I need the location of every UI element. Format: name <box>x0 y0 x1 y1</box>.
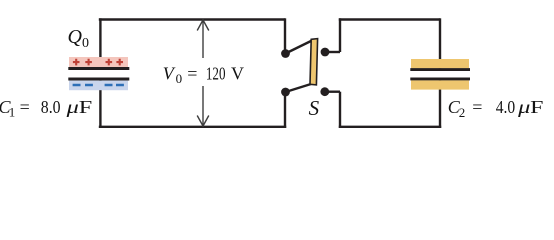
svg-text:Q0: Q0 <box>68 26 89 51</box>
V0 arrow upper segment <box>202 21 204 59</box>
wire: right circuit bottom stub <box>325 90 340 92</box>
switch terminal dot top-left <box>281 49 290 58</box>
switch terminal dot bottom-right <box>320 87 329 96</box>
wire: right circuit left side upper <box>339 18 341 52</box>
wire: left circuit right side upper <box>284 18 286 53</box>
switch terminal dot bottom-left <box>281 88 290 97</box>
capacitor C1 negative charge band <box>69 81 128 91</box>
label C1 = 8.0 uF <box>0 97 92 120</box>
svg-text:S: S <box>309 96 320 120</box>
capacitor C1 positive charge band <box>69 57 128 67</box>
wire: left circuit left side lower <box>99 79 101 128</box>
svg-text:=: = <box>20 97 30 117</box>
capacitor C2 top gold band <box>411 59 469 68</box>
wire: right circuit left side lower <box>339 92 341 128</box>
wire: right circuit right side lower <box>439 80 441 128</box>
C1 plus charges <box>73 59 123 66</box>
wire: left circuit left side upper <box>99 18 101 68</box>
switch blade (gold bar) <box>310 39 318 85</box>
svg-text:120: 120 <box>206 64 226 84</box>
wire: right circuit bottom <box>339 126 441 128</box>
wire: right circuit top stub <box>325 51 340 53</box>
capacitor C1 top plate <box>68 67 129 70</box>
svg-text:F: F <box>79 97 93 117</box>
V0 arrow top head <box>197 20 209 31</box>
wire: left circuit bottom <box>99 126 286 128</box>
svg-text:1: 1 <box>9 105 16 120</box>
svg-text:V: V <box>163 64 176 84</box>
wire: left circuit top <box>99 18 285 20</box>
svg-text:V: V <box>231 64 244 84</box>
svg-text:2: 2 <box>459 105 466 120</box>
svg-text:μ: μ <box>517 97 531 117</box>
capacitor C2 top plate <box>410 68 470 71</box>
wire: right circuit right side upper <box>439 18 441 68</box>
svg-text:8.0: 8.0 <box>41 97 61 117</box>
svg-text:=: = <box>472 97 482 117</box>
label V0 = 120 V <box>163 64 244 87</box>
wire: right circuit top <box>339 18 440 20</box>
capacitor C1 bottom plate <box>68 78 129 81</box>
V0 arrow bottom head <box>197 116 209 127</box>
svg-text:4.0: 4.0 <box>496 97 516 117</box>
svg-text:F: F <box>530 97 543 117</box>
capacitor C2 bottom plate <box>410 77 470 80</box>
C1 minus charges <box>73 84 124 87</box>
svg-text:μ: μ <box>65 97 79 117</box>
svg-text:=: = <box>187 64 197 84</box>
V0 arrow lower segment <box>202 86 204 126</box>
label C2 = 4.0 uF <box>448 97 544 120</box>
wire: left circuit right side lower <box>284 92 286 128</box>
switch terminal dot top-right <box>321 48 330 57</box>
capacitor C2 bottom gold band <box>411 80 469 89</box>
switch blade link upper <box>286 41 313 54</box>
switch blade link lower <box>286 84 312 92</box>
svg-text:0: 0 <box>176 71 183 86</box>
